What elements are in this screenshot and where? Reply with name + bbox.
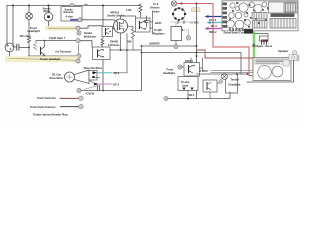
svg-text:Sound Board Conn: Sound Board Conn [224, 32, 246, 35]
wire bus to box A [102, 6, 104, 27]
wire top bus [7, 5, 141, 7]
plug P9 [76, 59, 80, 63]
wire smoke motor yellow [45, 26, 77, 30]
svg-text:Front: Front [167, 67, 174, 71]
svg-text:1N4001: 1N4001 [185, 60, 194, 63]
plug P3 [76, 26, 80, 30]
wire mid h55 [29, 55, 77, 57]
transistor chuff opto Q1 [40, 48, 42, 55]
wire box1 bottom [187, 91, 189, 99]
connector battery plug [244, 29, 253, 34]
plug P4 [78, 18, 82, 22]
plug P7 [164, 97, 168, 101]
wire box B bottom loop [103, 53, 142, 91]
wire plug link [77, 44, 79, 54]
wire junction drop [114, 34, 127, 73]
wire driver top [190, 58, 192, 63]
svg-text:2N4401: 2N4401 [110, 40, 119, 43]
speaker terminal [293, 51, 297, 55]
svg-text:lamp: lamp [183, 85, 189, 88]
svg-text:Tender Internal Header Plug: Tender Internal Header Plug [33, 112, 68, 116]
terminal block [289, 55, 297, 61]
plug yellow tag [192, 8, 201, 12]
wire driver right [200, 58, 203, 71]
wire right rail v196 [196, 4, 198, 100]
capacitor 1uF25 [144, 16, 149, 27]
svg-text:Headlight: Headlight [229, 82, 241, 86]
wire left rail A [6, 6, 8, 45]
speaker assembly box [253, 58, 291, 81]
wire blue VCC-5 [208, 16, 223, 18]
svg-text:harness: harness [92, 76, 101, 79]
AC track power source [5, 43, 14, 52]
wire left rail B [13, 6, 17, 48]
svg-text:Chuff Opto ?: Chuff Opto ? [49, 36, 66, 40]
wire chuff bus [36, 40, 76, 42]
wire mosfet source [120, 33, 122, 50]
wire cyan NC-4 [210, 22, 223, 24]
wire driver bottom [190, 76, 192, 80]
wire motor teal NC-2 [94, 83, 99, 86]
wire green battery [252, 32, 256, 78]
wire tender headlight yellow [5, 56, 78, 62]
svg-text:Track Truck Common: Track Truck Common [30, 106, 56, 109]
plug P8 [77, 54, 81, 58]
svg-text:Modulator: Modulator [84, 35, 96, 38]
transistor box2 tender driver [203, 80, 217, 92]
wire box C right [150, 12, 153, 34]
wire mid rail v141 [141, 46, 143, 53]
connector round 4-pin [173, 8, 185, 20]
wire box B out1 [110, 49, 142, 51]
svg-text:+5v Transistor: +5v Transistor [55, 51, 71, 54]
plug P6 [174, 44, 178, 48]
svg-text:Tender Headlight: Tender Headlight [40, 58, 60, 61]
wire motor teal NC-3 [93, 71, 98, 74]
wire smoke element purple [71, 19, 78, 21]
svg-text:+5 VDC?: +5 VDC? [199, 70, 209, 73]
svg-text:4.7uF16: 4.7uF16 [86, 93, 95, 96]
wire speaker leads [211, 71, 253, 73]
plug P10 [219, 80, 223, 84]
svg-text:1uF25: 1uF25 [155, 22, 163, 25]
svg-text:Headlight: Headlight [163, 71, 175, 75]
wire tender lamp loop [226, 75, 238, 94]
opto light arrows [34, 44, 38, 50]
lamp tender headlight [222, 74, 228, 80]
regulator box LM340T5 [171, 27, 182, 41]
wire reg right dashed [182, 30, 189, 35]
svg-text:LC-8: LC-8 [153, 4, 159, 6]
resistor 50K [132, 27, 135, 41]
motor smoke motor [48, 6, 50, 13]
ground chassis [186, 36, 191, 41]
mosfet IRF510 [114, 19, 128, 33]
wire magenta SMK-2 [208, 28, 223, 30]
node junction top dots [12, 5, 104, 7]
wire reg top dashed [171, 22, 190, 27]
svg-text:Motor: Motor [44, 10, 51, 13]
transistor headlight driver box [178, 65, 182, 69]
svg-text:Speaker: Speaker [278, 49, 288, 53]
wire tender h74 [197, 73, 248, 75]
resistor 100 ohm [28, 36, 31, 43]
svg-text:Regulator: Regulator [153, 33, 165, 36]
resistor 2.2K [102, 37, 104, 39]
plug P1 on top bus [70, 3, 74, 7]
svg-text:NC-4: NC-4 [114, 72, 120, 75]
lamp box 45 ohm [178, 77, 198, 91]
plug P2 [76, 39, 80, 43]
plug P5 [77, 88, 81, 92]
wire to chuff box [80, 41, 92, 47]
svg-text:NC-4: NC-4 [211, 25, 217, 28]
wire bottom return 1 [168, 92, 230, 99]
svg-text:Smoke Switch: Smoke Switch [107, 14, 125, 18]
PCB sound board [222, 1, 298, 31]
transistor box A smoke driver [102, 27, 113, 37]
svg-text:2.2Kohms: 2.2Kohms [108, 44, 120, 47]
transistor box C [136, 18, 151, 32]
smoke element box [61, 7, 82, 22]
resistor 1.2K [139, 4, 142, 12]
svg-text:+5 VDC: +5 VDC [190, 21, 199, 25]
svg-text:LM340T5: LM340T5 [149, 43, 160, 46]
wire to mosfet [82, 20, 117, 22]
svg-text:Element: Element [64, 11, 74, 14]
wire source bottom [9, 52, 11, 58]
transistor box B chuff transistor [93, 47, 111, 60]
svg-text:1.2K: 1.2K [126, 8, 132, 12]
lamp cab light [171, 1, 176, 6]
svg-text:Tender: Tender [152, 11, 160, 13]
wire speaker return [247, 61, 294, 83]
svg-text:Configure - Bat-In: Configure - Bat-In [252, 45, 273, 48]
svg-text:50K: 50K [127, 41, 132, 44]
wire red feed [213, 4, 253, 76]
svg-text:Drive Motor: Drive Motor [50, 77, 64, 80]
lamp front headlight [28, 6, 30, 13]
wire cab lamp red [177, 3, 213, 5]
svg-text:Motor Rectifiers: Motor Rectifiers [84, 67, 103, 70]
wire maroon h58 [197, 50, 254, 58]
capacitor C1 [17, 44, 19, 50]
wire reg bottom [175, 41, 177, 45]
svg-text:Headlight: Headlight [28, 29, 40, 33]
svg-text:NC-2: NC-2 [114, 84, 120, 87]
capacitor C2 marks [97, 86, 99, 91]
wire cap to corner [19, 46, 29, 48]
wire mid rail h52 [142, 53, 242, 75]
wire mosfet drain [121, 16, 136, 19]
wire mid rail h46 [142, 45, 197, 47]
svg-text:4 ohm: 4 ohm [66, 15, 74, 18]
wire box A gate [113, 28, 115, 29]
svg-text:1N4-4: 1N4-4 [188, 94, 195, 97]
svg-text:5Volts/m: 5Volts/m [150, 7, 159, 10]
svg-text:Track Truck Hot: Track Truck Hot [37, 97, 56, 100]
plug smoke modulator [77, 31, 81, 35]
